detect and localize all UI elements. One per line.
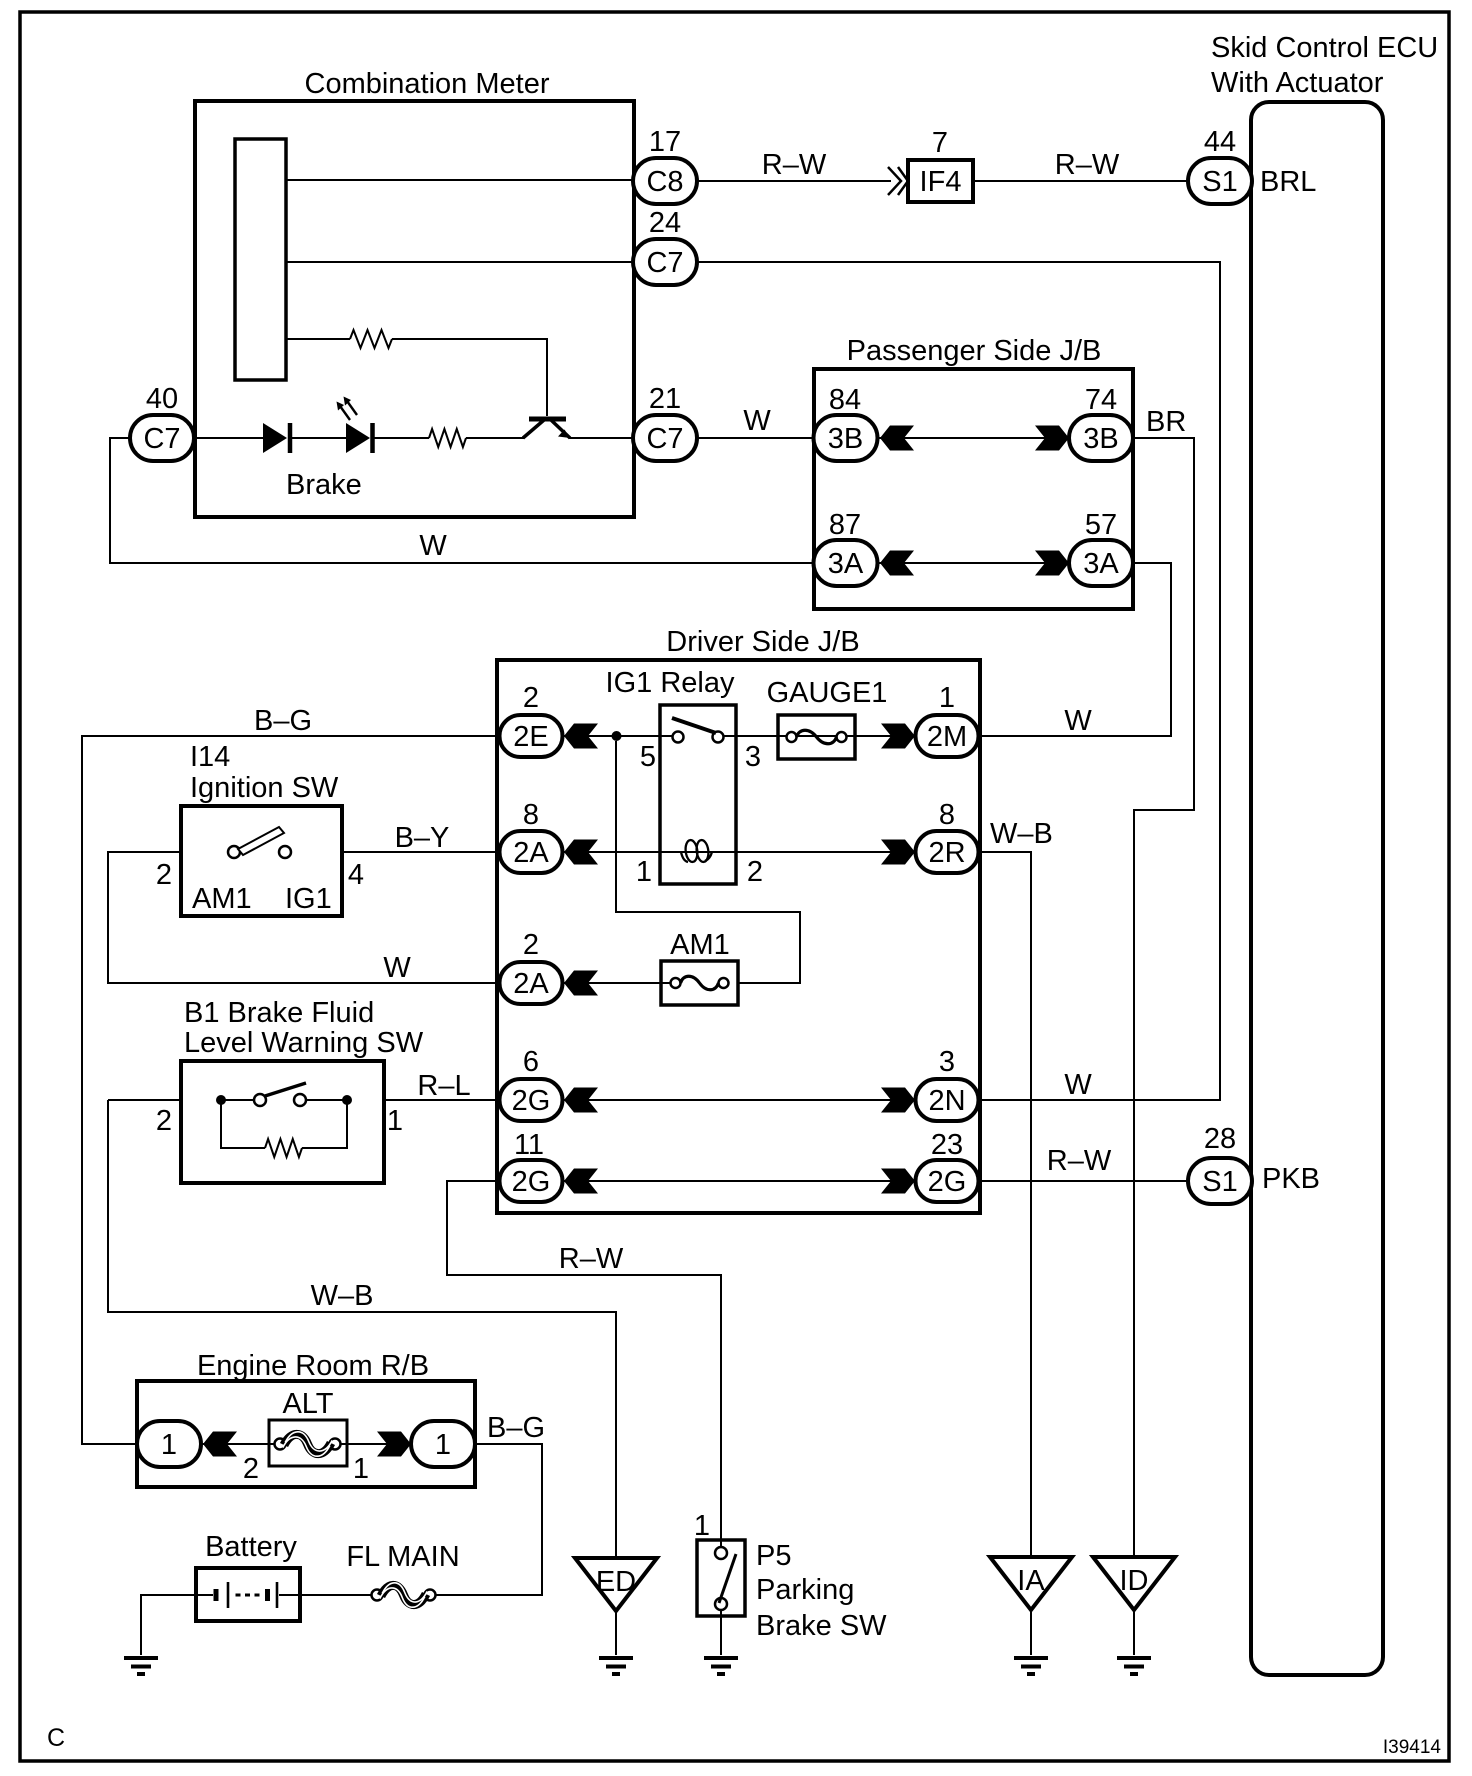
wire meter gauge to C7 pin 24 — [286, 261, 633, 263]
resistor R1 zigzag — [350, 330, 392, 348]
parking brake switch box — [697, 1540, 745, 1616]
wire IA triangle to ground — [1030, 1610, 1032, 1655]
svg-text:74: 74 — [1085, 384, 1117, 416]
wire battery internal — [196, 1594, 213, 1596]
connector S1 pin 44 — [1188, 158, 1252, 204]
fuse AM1 box — [661, 961, 738, 1005]
chevron left of 3A row — [880, 551, 914, 576]
engine room R/B box — [137, 1381, 475, 1487]
connector 2M pin 1 — [916, 715, 979, 757]
svg-text:C8: C8 — [646, 166, 683, 198]
wire ED triangle to ground — [615, 1611, 617, 1655]
wire Engine R/B oval to ALT fuse — [200, 1443, 274, 1445]
chevron left of 3B row — [880, 426, 914, 451]
LED D2 brake indicator — [337, 397, 373, 454]
svg-text:S1: S1 — [1202, 166, 1237, 198]
svg-text:1: 1 — [939, 682, 955, 714]
svg-text:Engine Room R/B: Engine Room R/B — [197, 1350, 429, 1382]
connector 1 left engine R/B — [137, 1421, 201, 1467]
wire B-G Engine R/B to FL MAIN — [436, 1444, 542, 1595]
svg-text:3: 3 — [745, 741, 761, 773]
wire W 3A pin57 to 2M pin 1 — [980, 563, 1171, 736]
battery ground — [124, 1658, 158, 1674]
svg-text:IG1 Relay: IG1 Relay — [606, 667, 735, 699]
ED ground symbol — [599, 1658, 633, 1674]
meter gauge element — [235, 139, 286, 380]
svg-text:C7: C7 — [143, 423, 180, 455]
svg-text:Driver Side J/B: Driver Side J/B — [666, 626, 859, 658]
connector C7 pin 40 — [130, 415, 194, 461]
brake SW lever — [265, 1083, 306, 1096]
svg-text:4: 4 — [348, 859, 364, 891]
svg-text:84: 84 — [829, 384, 861, 416]
resistor R2 zigzag — [429, 429, 466, 447]
connector 2G pin 6 — [500, 1079, 563, 1121]
connector C7 pin 21 — [633, 415, 697, 461]
connector 2E pin 2 — [500, 715, 563, 757]
wire BR 3B pin74 down to ID ground — [1133, 438, 1194, 1557]
svg-text:17: 17 — [649, 126, 681, 158]
brake SW resistor zigzag — [265, 1139, 302, 1157]
connector 3B pin 84 — [814, 415, 878, 461]
svg-text:Brake SW: Brake SW — [756, 1610, 887, 1642]
svg-text:2A: 2A — [513, 837, 549, 869]
svg-text:3A: 3A — [1083, 548, 1119, 580]
wire R-W 2G pin11 to parking brake SW — [447, 1181, 721, 1547]
svg-text:23: 23 — [931, 1129, 963, 1161]
wire brake fluid SW internal left — [221, 1099, 254, 1101]
svg-text:R–W: R–W — [1055, 149, 1120, 181]
transistor Q1 — [523, 419, 570, 438]
chevron right of 2E — [564, 724, 598, 749]
svg-text:B–G: B–G — [254, 705, 312, 737]
wire diode D1 to LED D2 — [289, 437, 346, 439]
wire 2E to IG1 relay contact — [563, 735, 672, 737]
connector IF4 box — [908, 160, 973, 202]
chevron left of 2G pin23 — [881, 1169, 915, 1194]
chevron right of 2G pin11 — [564, 1169, 598, 1194]
fuse GAUGE1 element — [787, 730, 847, 744]
svg-text:Battery: Battery — [205, 1531, 297, 1563]
wire 2A pin8 through relay coil to 2R — [563, 851, 915, 853]
wire parking brake SW to ground — [720, 1610, 722, 1655]
svg-text:44: 44 — [1204, 126, 1236, 158]
wire C7 pin40 to diode D1 — [194, 437, 263, 439]
svg-text:5: 5 — [640, 741, 656, 773]
svg-text:2G: 2G — [928, 1166, 967, 1198]
wire W ignition SW AM1 pin2 to 2A pin 2 — [108, 852, 500, 983]
wire B-G 2E to Engine Room R/B — [82, 736, 500, 1444]
wire R-W 2G pin23 to S1 pin 28 — [980, 1180, 1188, 1182]
brake SW contact left — [254, 1094, 266, 1106]
svg-text:With Actuator: With Actuator — [1211, 67, 1384, 99]
ignition contact AM1 — [228, 846, 240, 858]
svg-text:2N: 2N — [928, 1085, 965, 1117]
svg-text:2E: 2E — [513, 721, 548, 753]
ground point ID — [1093, 1557, 1175, 1610]
wire LED D2 to resistor R2 — [372, 437, 429, 439]
svg-text:2M: 2M — [927, 721, 967, 753]
brake SW contact right — [294, 1094, 306, 1106]
chevron left of right 1 — [377, 1432, 411, 1457]
svg-text:1: 1 — [161, 1429, 177, 1461]
svg-text:1: 1 — [353, 1453, 369, 1485]
diode D1 — [263, 423, 290, 453]
svg-text:C: C — [47, 1724, 65, 1752]
svg-text:2G: 2G — [512, 1085, 551, 1117]
svg-text:3A: 3A — [828, 548, 864, 580]
relay coil — [681, 839, 712, 862]
svg-text:IF4: IF4 — [920, 166, 962, 198]
relay switch lever — [672, 718, 716, 733]
wire brake fluid SW resistor branch — [221, 1100, 265, 1148]
wire meter gauge to resistor R1 and transistor base — [286, 338, 350, 340]
svg-text:21: 21 — [649, 383, 681, 415]
wire 2A pin2 to AM1 fuse — [563, 982, 675, 984]
svg-text:GAUGE1: GAUGE1 — [767, 677, 888, 709]
svg-text:8: 8 — [523, 799, 539, 831]
battery box — [196, 1568, 300, 1621]
chevron left of 2R — [881, 840, 915, 865]
svg-text:57: 57 — [1085, 509, 1117, 541]
svg-text:I39414: I39414 — [1383, 1737, 1442, 1758]
svg-text:W–B: W–B — [990, 818, 1053, 850]
svg-text:S1: S1 — [1202, 1166, 1237, 1198]
combination meter box — [195, 101, 634, 517]
wire B-Y ignition SW to 2A pin 8 — [342, 851, 500, 853]
chevron right of 2G pin6 — [564, 1088, 598, 1113]
chevron right of 2A pin8 — [564, 840, 598, 865]
wire inside Driver J/B 2G-2G row — [563, 1180, 915, 1182]
connector 2G pin 23 — [916, 1160, 979, 1202]
svg-text:BR: BR — [1146, 406, 1186, 438]
svg-text:BRL: BRL — [1260, 166, 1316, 198]
svg-text:3: 3 — [939, 1046, 955, 1078]
svg-text:8: 8 — [939, 799, 955, 831]
svg-text:B–G: B–G — [487, 1412, 545, 1444]
wire transistor emitter to C7 pin 21 — [569, 437, 633, 439]
svg-text:11: 11 — [514, 1129, 544, 1161]
svg-text:1: 1 — [387, 1105, 403, 1137]
svg-text:FL MAIN: FL MAIN — [346, 1541, 459, 1573]
svg-text:2: 2 — [523, 929, 539, 961]
wire R-W IF4 to S1 pin 44 — [973, 180, 1188, 182]
chevron right of 2A pin2 — [564, 971, 598, 996]
svg-text:2: 2 — [156, 1105, 172, 1137]
ignition contact IG1 — [279, 846, 291, 858]
svg-text:1: 1 — [694, 1510, 710, 1542]
svg-text:C7: C7 — [646, 247, 683, 279]
svg-text:R–W: R–W — [762, 149, 827, 181]
wire meter gauge to C8 pin 17 — [286, 179, 633, 181]
wire W C7 pin40 loop to 3A pin 87 — [110, 438, 814, 563]
svg-text:ED: ED — [596, 1566, 636, 1598]
wire battery internal right — [279, 1594, 300, 1596]
chevron right of left 1 — [203, 1432, 237, 1457]
svg-text:W: W — [383, 952, 411, 984]
wire relay contact to GAUGE1 fuse to 2M — [724, 735, 915, 737]
wire ID triangle to ground — [1133, 1610, 1135, 1655]
ignition switch box — [181, 806, 342, 916]
wire W-B 2R down to IA ground — [980, 852, 1031, 1557]
svg-text:IA: IA — [1017, 1565, 1045, 1597]
skid control ECU with actuator body — [1251, 102, 1383, 1675]
svg-text:7: 7 — [932, 127, 948, 159]
connector 1 right engine R/B — [411, 1421, 475, 1467]
svg-text:3B: 3B — [1083, 423, 1118, 455]
wire W 2N pin3 to vertical — [980, 1099, 1220, 1101]
fuse GAUGE1 box — [778, 715, 855, 759]
svg-text:B1 Brake Fluid: B1 Brake Fluid — [184, 997, 374, 1029]
relay contact left pin 5 — [673, 732, 684, 743]
IG1 relay box — [660, 705, 736, 884]
connector 2G pin 11 — [500, 1160, 563, 1202]
ID ground symbol — [1117, 1658, 1151, 1674]
fuse AM1 element — [671, 976, 729, 990]
junction node brake SW right — [342, 1095, 352, 1105]
parking brake SW lever — [719, 1554, 736, 1603]
svg-text:R–W: R–W — [1047, 1145, 1112, 1177]
svg-text:AM1: AM1 — [670, 929, 730, 961]
svg-text:2: 2 — [523, 682, 539, 714]
fusible link FL MAIN element — [372, 1583, 436, 1607]
svg-text:I14: I14 — [190, 741, 230, 773]
fusible link ALT element — [275, 1432, 341, 1456]
IA ground symbol — [1014, 1658, 1048, 1674]
brake fluid level warning switch box — [181, 1061, 384, 1183]
parking brake contact bottom — [715, 1598, 727, 1610]
wire brake fluid SW resistor branch right — [302, 1100, 347, 1148]
svg-text:P5: P5 — [756, 1540, 791, 1572]
parking brake ground symbol — [704, 1658, 738, 1674]
svg-text:Brake: Brake — [286, 469, 362, 501]
svg-text:W: W — [1064, 1069, 1092, 1101]
wire battery to body ground — [141, 1595, 196, 1655]
chevron left of 2N — [881, 1088, 915, 1113]
svg-text:2R: 2R — [928, 837, 965, 869]
wire brake fluid SW pin2 lead — [108, 1099, 181, 1101]
svg-text:PKB: PKB — [1262, 1163, 1320, 1195]
svg-text:2: 2 — [747, 856, 763, 888]
svg-text:2: 2 — [243, 1453, 259, 1485]
connector S1 pin 28 — [1188, 1158, 1252, 1204]
connector C7 pin 24 — [633, 239, 697, 285]
svg-text:87: 87 — [829, 509, 861, 541]
wire resistor R1 to transistor collector — [392, 339, 547, 416]
svg-text:R–W: R–W — [559, 1243, 624, 1275]
wire inside Driver J/B 2G-2N row — [563, 1099, 915, 1101]
ground point IA — [990, 1557, 1072, 1610]
svg-text:R–L: R–L — [417, 1070, 470, 1102]
wire R-W C8 to IF4 — [698, 180, 891, 182]
relay contact right pin 3 — [713, 732, 724, 743]
wire inside Passenger J/B 3B row — [877, 437, 1070, 439]
svg-text:W: W — [419, 530, 447, 562]
svg-text:2G: 2G — [512, 1166, 551, 1198]
chevron left of 2M — [881, 724, 915, 749]
svg-text:ALT: ALT — [282, 1388, 333, 1420]
wire brake fluid SW internal right — [306, 1099, 347, 1101]
passenger side J/B box — [814, 369, 1133, 609]
wire W C7 pin21 to 3B pin 84 — [698, 437, 814, 439]
svg-text:2A: 2A — [513, 968, 549, 1000]
splice arrows into IF4 — [888, 167, 908, 195]
wire W-B brake fluid SW to ED ground — [108, 1100, 616, 1557]
svg-text:Passenger Side J/B: Passenger Side J/B — [847, 335, 1102, 367]
svg-text:Skid Control ECU: Skid Control ECU — [1211, 32, 1438, 64]
wire relay junction down to AM1 fuse — [616, 741, 800, 983]
svg-text:3B: 3B — [828, 423, 863, 455]
wire W C7 pin24 down to 2N — [698, 262, 1220, 1100]
svg-text:1: 1 — [435, 1429, 451, 1461]
junction node brake SW left — [216, 1095, 226, 1105]
ground point ED — [575, 1558, 657, 1611]
svg-text:2: 2 — [156, 859, 172, 891]
svg-text:W: W — [1064, 705, 1092, 737]
connector 2A pin 8 — [500, 831, 563, 873]
svg-text:28: 28 — [1204, 1123, 1236, 1155]
connector 3B pin 74 — [1069, 415, 1133, 461]
svg-text:W: W — [743, 405, 771, 437]
svg-text:IG1: IG1 — [285, 883, 332, 915]
wire R-L brake fluid SW pin1 to 2G pin 6 — [384, 1099, 500, 1101]
wire ALT fuse to right oval — [339, 1443, 412, 1445]
svg-text:6: 6 — [523, 1046, 539, 1078]
connector 2A pin 2 — [500, 962, 563, 1004]
svg-text:AM1: AM1 — [192, 883, 252, 915]
battery cell symbol — [216, 1582, 277, 1608]
driver side J/B box — [497, 660, 980, 1213]
svg-text:40: 40 — [146, 383, 178, 415]
chevron right of 3A row — [1035, 551, 1069, 576]
svg-text:1: 1 — [636, 856, 652, 888]
connector 2N pin 3 — [916, 1079, 979, 1121]
wire FL MAIN to battery — [300, 1594, 371, 1596]
svg-text:B–Y: B–Y — [395, 822, 450, 854]
svg-text:Combination Meter: Combination Meter — [305, 68, 550, 100]
svg-text:Parking: Parking — [756, 1574, 854, 1606]
svg-text:24: 24 — [649, 207, 681, 239]
connector 3A pin 87 — [814, 540, 878, 586]
fuse ALT box — [269, 1420, 347, 1466]
connector 3A pin 57 — [1069, 540, 1133, 586]
wire inside Passenger J/B 3A row — [877, 562, 1070, 564]
ignition switch lever — [238, 827, 284, 855]
svg-text:Level Warning SW: Level Warning SW — [184, 1027, 424, 1059]
svg-text:Ignition SW: Ignition SW — [190, 772, 339, 804]
wire resistor R2 to transistor — [466, 437, 524, 439]
connector C8 pin 17 — [633, 158, 697, 204]
junction node relay feed — [612, 731, 622, 741]
svg-text:C7: C7 — [646, 423, 683, 455]
chevron right of 3B row — [1035, 426, 1069, 451]
connector 2R pin 8 — [916, 831, 979, 873]
parking brake contact top — [715, 1547, 727, 1559]
svg-text:ID: ID — [1120, 1565, 1149, 1597]
svg-text:W–B: W–B — [311, 1280, 374, 1312]
